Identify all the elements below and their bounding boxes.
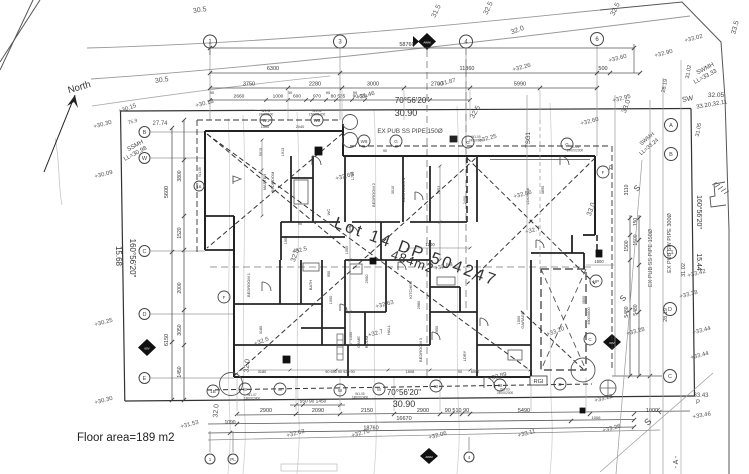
svg-text:1739: 1739 — [351, 172, 355, 180]
svg-text:E: E — [143, 376, 147, 382]
svg-text:3750: 3750 — [243, 82, 255, 88]
roof outline left — [196, 120, 198, 255]
svg-text:AWM: AWM — [425, 455, 433, 459]
window tag W10 — [373, 383, 385, 395]
svg-text:2900: 2900 — [260, 408, 272, 414]
corner circle bottom left — [220, 373, 243, 396]
grid bubble left E — [139, 373, 150, 384]
extension line bottom x586 — [585, 378, 587, 411]
svg-text:1608: 1608 — [406, 370, 414, 374]
svg-text:LOUNGE: LOUNGE — [525, 187, 530, 204]
svg-text:2280: 2280 — [309, 82, 321, 88]
interior wall 9 — [476, 156, 478, 222]
wall step top — [342, 124, 344, 156]
svg-text:HP: HP — [593, 279, 599, 284]
contour line upper — [87, 10, 600, 48]
boundary notch — [710, 182, 726, 207]
roof hip master a — [207, 133, 343, 248]
svg-text:6000: 6000 — [471, 370, 479, 374]
grid line from top bubble 4 — [596, 46, 598, 157]
svg-text:33.43: 33.43 — [693, 393, 709, 399]
corner circle top 2 — [343, 133, 358, 148]
extension line top x540 — [539, 90, 541, 120]
wall jog1 — [205, 215, 234, 217]
svg-text:W1: W1 — [263, 118, 270, 123]
dim line right a — [629, 215, 631, 376]
svg-text:2400X2000: 2400X2000 — [567, 149, 584, 153]
svg-text:4600X600: 4600X600 — [587, 307, 591, 324]
door arc 6 — [262, 282, 271, 291]
dim line row4 — [210, 99, 470, 101]
svg-text:160°56'20": 160°56'20" — [695, 195, 703, 229]
svg-text:BEDROOM 2: BEDROOM 2 — [371, 182, 376, 207]
svg-text:MASTER: MASTER — [262, 174, 267, 191]
svg-text:60V: 60V — [144, 347, 149, 351]
svg-text:3010: 3010 — [391, 186, 395, 194]
window tag D9 — [554, 378, 566, 390]
svg-text:150: 150 — [633, 218, 639, 227]
window tag W7 — [430, 380, 442, 392]
contour line through lot 4 — [374, 109, 376, 474]
svg-text:90: 90 — [298, 222, 302, 226]
interior wall 6 — [281, 221, 340, 223]
svg-text:3800: 3800 — [177, 170, 183, 181]
contour line 30.5 — [92, 76, 330, 106]
dim base right — [612, 375, 662, 377]
bottom leader lines — [209, 431, 211, 453]
grid bubble top 3 — [460, 35, 473, 48]
roof valley long ascending — [234, 157, 477, 376]
extension line top x342 — [341, 90, 343, 120]
svg-text:W1-08: W1-08 — [198, 167, 202, 177]
grid line from left bubble D — [151, 313, 234, 315]
svg-text:W9: W9 — [361, 139, 368, 144]
svg-text:160°56'20": 160°56'20" — [128, 239, 137, 278]
wall jog right — [583, 234, 595, 236]
wall left lower — [233, 216, 235, 377]
grid line from left bubble E — [151, 377, 234, 379]
bottom faint box — [281, 464, 337, 471]
svg-text:BEDROOM 3: BEDROOM 3 — [418, 337, 423, 362]
wall top main — [343, 155, 595, 157]
interior wall 15 — [234, 303, 322, 305]
roof outline right — [611, 146, 613, 368]
garage diagonal 2 — [541, 269, 586, 370]
parcel line top-left inner — [0, 0, 33, 70]
grid bubble bottom 2 — [228, 454, 238, 464]
interior wall 13 — [345, 259, 430, 261]
interior wall 21 — [345, 311, 386, 313]
wall bottom — [234, 376, 531, 378]
interior wall 1 — [290, 156, 292, 222]
door arc 7 — [560, 156, 569, 165]
svg-text:A: A — [669, 123, 673, 129]
power pole diamond right — [603, 334, 621, 350]
svg-text:5490: 5490 — [518, 408, 530, 414]
svg-text:RGI: RGI — [534, 379, 544, 385]
svg-text:500: 500 — [598, 66, 607, 72]
grid bubble right C — [664, 370, 677, 383]
svg-text:TSG1: TSG1 — [526, 132, 532, 148]
interior dim line v1 — [261, 140, 263, 216]
svg-text:F: F — [602, 170, 605, 175]
dim row bottom 18760 — [208, 427, 634, 433]
svg-text:1450: 1450 — [177, 366, 183, 377]
svg-text:1500: 1500 — [517, 316, 521, 324]
svg-text:3695: 3695 — [541, 186, 545, 194]
interior wall 5 — [402, 156, 404, 222]
fixture mw — [596, 250, 602, 257]
svg-text:2400X600: 2400X600 — [259, 113, 274, 117]
svg-text:2980: 2980 — [417, 301, 421, 309]
svg-text:Floor area=189 m2: Floor area=189 m2 — [77, 432, 175, 444]
power pole diamond top — [418, 33, 436, 50]
contour line through lot 5 — [457, 106, 459, 474]
door arc 9 — [340, 304, 347, 311]
interior wall 25 — [430, 286, 460, 288]
fixture stairs — [337, 334, 343, 360]
interior wall 30 — [429, 240, 431, 345]
fixture robe — [294, 180, 308, 204]
svg-text:90 650 90 920 90: 90 650 90 920 90 — [325, 370, 355, 374]
svg-text:2040: 2040 — [296, 125, 304, 129]
svg-text:27.74: 27.74 — [152, 121, 168, 127]
svg-text:2150: 2150 — [361, 408, 373, 414]
grid line from top bubble 3 — [465, 48, 467, 156]
svg-text:1600: 1600 — [594, 259, 604, 264]
interior wall 34 — [322, 344, 430, 346]
interior wall 20 — [344, 260, 346, 345]
dim line 58760 — [210, 47, 634, 49]
site boundary right — [691, 109, 695, 397]
power pole diamond left — [138, 339, 156, 356]
wall right upper — [594, 156, 596, 235]
svg-text:2000: 2000 — [177, 282, 183, 293]
extension line bottom x237 — [236, 378, 238, 411]
svg-text:5990: 5990 — [514, 82, 526, 88]
svg-text:70°56'20": 70°56'20" — [387, 388, 421, 397]
wall right dashed upper — [596, 235, 598, 256]
interior wall 17 — [321, 260, 323, 345]
grid bubble left B — [139, 127, 150, 138]
svg-text:1B: 1B — [210, 389, 216, 394]
svg-text:- A -: - A - — [673, 455, 680, 468]
door arc 10 — [480, 318, 488, 326]
fixture bottom right — [580, 408, 585, 413]
dim line right b — [638, 215, 640, 376]
svg-text:PL: PL — [230, 457, 236, 462]
svg-text:KITCHEN: KITCHEN — [408, 281, 413, 299]
svg-text:ROOM: ROOM — [364, 336, 369, 348]
roof hip bottom right — [520, 310, 583, 369]
contour line through lot 1 — [228, 118, 230, 474]
svg-text:2950: 2950 — [435, 326, 439, 334]
svg-text:15.68: 15.68 — [114, 246, 123, 267]
interior wall 19 — [301, 327, 345, 329]
contour line through lot 6 — [550, 103, 552, 474]
interior wall 8 — [410, 221, 467, 223]
roof hip lounge right — [467, 158, 595, 284]
window tag G17 — [390, 135, 402, 147]
interior wall 14 — [279, 260, 281, 304]
svg-text:6150: 6150 — [164, 334, 170, 346]
svg-text:EX PUB SS PIPE 150Ø: EX PUB SS PIPE 150Ø — [648, 228, 654, 287]
roof valley long descending — [207, 134, 531, 371]
svg-text:B: B — [669, 152, 673, 158]
svg-text:2400X2000: 2400X2000 — [497, 391, 514, 395]
fixture ef 1 — [315, 147, 322, 155]
parcel line top-left outer — [0, 0, 40, 62]
fixture ldry — [508, 350, 522, 360]
svg-text:16670: 16670 — [396, 416, 411, 422]
svg-text:1200: 1200 — [425, 242, 435, 247]
door arc 3 — [398, 262, 406, 270]
svg-text:1500X1200: 1500X1200 — [309, 113, 326, 117]
margin line r3 — [662, 78, 664, 474]
svg-text:11860: 11860 — [460, 66, 475, 72]
north arrow — [44, 95, 75, 172]
interior wall 31 — [477, 344, 531, 346]
grid bubble right D — [664, 303, 677, 316]
interior wall 11 — [281, 236, 345, 238]
window tag F15 — [218, 291, 230, 303]
svg-text:70°56'20": 70°56'20" — [395, 96, 429, 105]
grid dashed vertical x466 — [465, 48, 467, 310]
wall jog bottom right — [530, 370, 532, 377]
svg-text:BEDROOM: BEDROOM — [270, 172, 275, 193]
svg-text:1450: 1450 — [349, 332, 353, 340]
svg-text:550 90 1450: 550 90 1450 — [300, 399, 327, 405]
grid line from left bubble B — [151, 131, 205, 133]
svg-text:32.0: 32.0 — [243, 359, 251, 373]
svg-text:BEDROOM 4: BEDROOM 4 — [401, 177, 406, 202]
wall garage right top — [583, 253, 585, 269]
roof outline top right — [350, 145, 610, 147]
svg-text:600: 600 — [293, 94, 301, 100]
grid bubble bottom 1 — [205, 454, 215, 464]
svg-text:AWM: AWM — [423, 41, 431, 45]
dim 1200 game room — [408, 247, 470, 249]
roof outline bottom tags row — [207, 384, 592, 390]
grid dashed horizontal y267 — [210, 266, 592, 268]
extension line bottom x296 — [295, 378, 297, 411]
wall top master — [205, 130, 343, 132]
svg-text:58760: 58760 — [399, 42, 414, 48]
corner circle garage — [571, 358, 595, 382]
TSG1 line — [526, 95, 528, 310]
svg-text:EX PUB SS PIPE 150Ø: EX PUB SS PIPE 150Ø — [377, 128, 443, 135]
interior wall 33 — [530, 260, 532, 377]
interior wall 16 — [300, 260, 302, 304]
svg-text:C: C — [143, 249, 147, 255]
interior wall 10 — [280, 222, 282, 260]
svg-text:2900: 2900 — [417, 408, 429, 414]
window tag W12 — [239, 383, 251, 395]
grid bubble top 4 — [591, 33, 604, 46]
grid line from left bubble W — [151, 157, 205, 159]
svg-text:B: B — [143, 130, 147, 136]
bottom slanted line — [208, 430, 660, 440]
roof hip master b — [207, 134, 345, 248]
svg-text:90: 90 — [210, 90, 215, 95]
svg-text:3180: 3180 — [258, 370, 266, 374]
svg-text:P: P — [609, 166, 613, 172]
wall right small room — [571, 235, 573, 253]
svg-text:BATH: BATH — [308, 280, 313, 290]
svg-text:1950: 1950 — [284, 236, 288, 244]
grid bubble right B — [665, 148, 678, 161]
survey circle bottom right — [600, 380, 616, 396]
fixture ef 3 — [370, 258, 376, 264]
svg-text:2400: 2400 — [463, 196, 467, 204]
window tag 1B13 — [207, 385, 219, 397]
fixture bath — [303, 263, 319, 271]
wall above garage — [531, 252, 584, 254]
interior wall 26 — [459, 287, 461, 312]
svg-text:W2: W2 — [314, 118, 321, 123]
window tag W10 — [260, 114, 272, 126]
dim row bottom small — [290, 404, 345, 406]
svg-text:GAME: GAME — [356, 336, 361, 348]
interior wall 2 — [312, 156, 314, 222]
svg-text:1913: 1913 — [281, 148, 285, 156]
svg-text:2053: 2053 — [437, 186, 441, 194]
window tag F5 — [597, 166, 609, 178]
svg-text:90 510 90: 90 510 90 — [445, 408, 469, 414]
window tag W11 — [274, 383, 286, 395]
site boundary left — [121, 111, 125, 401]
svg-text:1090: 1090 — [224, 420, 235, 426]
svg-text:32.05: 32.05 — [708, 92, 725, 99]
extension line top x404 — [403, 90, 405, 120]
margin line r1 — [614, 95, 616, 376]
interior wall 23 — [364, 312, 366, 345]
contour line 31.5 — [91, 16, 690, 79]
svg-text:5915: 5915 — [259, 148, 263, 156]
svg-text:D: D — [143, 312, 147, 318]
power pole diamond bottom — [420, 448, 438, 464]
svg-text:2090: 2090 — [312, 408, 324, 414]
dim line left inner — [183, 120, 185, 400]
window tag W14 — [334, 384, 346, 396]
svg-text:F: F — [223, 295, 226, 300]
interior wall 22 — [385, 260, 387, 312]
svg-text:1000: 1000 — [273, 94, 284, 100]
svg-text:5480: 5480 — [633, 304, 639, 315]
window tag W21 — [311, 114, 323, 126]
interior dim line h1 — [240, 369, 530, 371]
roof hip lounge left — [467, 158, 595, 284]
dim row bottom 16670 — [208, 420, 634, 425]
fixture bench — [437, 277, 455, 285]
window tag W92 — [358, 135, 370, 147]
door arc 4 — [432, 332, 440, 340]
door arc 2 — [350, 226, 358, 234]
interior wall 27 — [430, 311, 477, 313]
interior wall 29 — [429, 166, 431, 222]
svg-text:30.90: 30.90 — [393, 399, 416, 409]
grid line from top bubble 1 — [209, 48, 211, 120]
svg-text:WC: WC — [326, 209, 331, 216]
svg-text:1B: 1B — [197, 184, 202, 189]
parcel line top-right — [600, 2, 729, 474]
dim line 6300-11860 — [210, 72, 640, 74]
svg-text:1050: 1050 — [345, 246, 349, 254]
svg-text:6300: 6300 — [267, 66, 279, 72]
svg-text:30.90: 30.90 — [395, 108, 418, 118]
svg-text:G: G — [565, 142, 569, 147]
grid dashed vertical x427 — [426, 50, 428, 377]
svg-text:3050: 3050 — [177, 324, 183, 335]
dim line left outer — [171, 128, 173, 400]
svg-text:1520: 1520 — [177, 227, 183, 238]
contour line through lot 3 — [297, 112, 299, 474]
svg-text:90: 90 — [383, 149, 387, 153]
garage diagonal 1 — [541, 269, 586, 370]
svg-text:15.44: 15.44 — [695, 253, 702, 271]
grid bubble left W — [139, 153, 150, 164]
fixture wr — [350, 264, 362, 274]
grid line from left bubble C — [151, 250, 205, 252]
svg-text:90: 90 — [326, 90, 331, 95]
interior dim line v2 — [349, 226, 351, 345]
wall left upper — [204, 131, 206, 250]
svg-text:C: C — [668, 374, 672, 380]
door arc 5 — [484, 377, 495, 388]
fixture ef 2 — [283, 356, 290, 363]
sewer line 2 — [600, 373, 713, 472]
window tag G4 — [561, 138, 573, 150]
contour line left margin — [55, 138, 62, 205]
svg-text:1800X2400: 1800X2400 — [352, 396, 369, 400]
contour line through lot 2 — [243, 115, 245, 474]
extension line top x470 — [469, 90, 471, 120]
svg-text:1800X2400: 1800X2400 — [244, 397, 261, 401]
svg-text:32.0: 32.0 — [212, 404, 220, 418]
interior wall 24 — [347, 345, 349, 377]
grid bubble left C — [139, 246, 150, 257]
svg-text:31.02: 31.02 — [681, 263, 687, 277]
door arc 8 — [415, 192, 423, 200]
interior wall 28 — [476, 260, 478, 312]
svg-text:3180: 3180 — [259, 326, 263, 334]
corner circle top — [343, 115, 358, 130]
wall jog2 — [205, 249, 234, 251]
site boundary top — [121, 109, 692, 112]
grid bubble top 2 — [334, 35, 347, 48]
interior wall 32 — [476, 312, 478, 377]
svg-text:90: 90 — [288, 90, 293, 95]
door arc 11 — [536, 240, 544, 248]
extension line bottom x394 — [393, 378, 395, 411]
svg-text:80 535: 80 535 — [331, 94, 346, 100]
svg-text:5600: 5600 — [164, 186, 170, 198]
svg-text:4600: 4600 — [582, 296, 586, 304]
svg-text:3110: 3110 — [624, 184, 630, 195]
svg-text:EX PUB SW PIPE 300Ø: EX PUB SW PIPE 300Ø — [667, 212, 673, 272]
garage dim 1600 — [586, 264, 614, 266]
grid bubble left D — [139, 309, 150, 320]
grid bubble top 1 — [204, 35, 217, 48]
svg-text:90: 90 — [458, 370, 462, 374]
svg-text:950: 950 — [327, 271, 331, 277]
interior wall 12 — [380, 222, 382, 260]
grid bubble bottom 3 — [464, 452, 474, 462]
svg-text:P: P — [696, 400, 700, 406]
interior wall 7 — [352, 221, 400, 223]
interior wall 4 — [344, 156, 346, 222]
garage outline — [541, 269, 586, 370]
